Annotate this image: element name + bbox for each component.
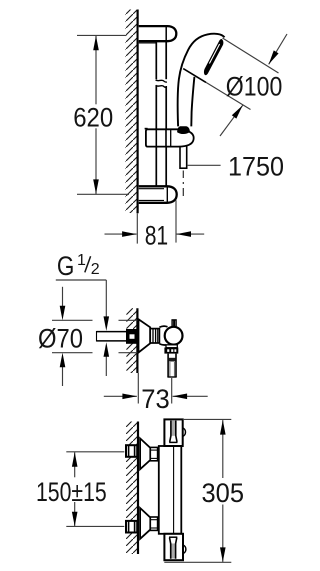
svg-text:305: 305	[202, 478, 245, 508]
svg-text:2: 2	[91, 261, 100, 278]
svg-text:81: 81	[145, 221, 169, 251]
svg-text:Ø100: Ø100	[226, 71, 282, 101]
svg-text:73: 73	[141, 384, 170, 414]
svg-text:G: G	[57, 251, 75, 281]
svg-text:1750: 1750	[228, 151, 284, 181]
svg-text:Ø70: Ø70	[38, 324, 83, 354]
svg-text:150±15: 150±15	[36, 477, 107, 507]
svg-text:620: 620	[73, 102, 113, 132]
svg-text:1: 1	[77, 252, 86, 269]
